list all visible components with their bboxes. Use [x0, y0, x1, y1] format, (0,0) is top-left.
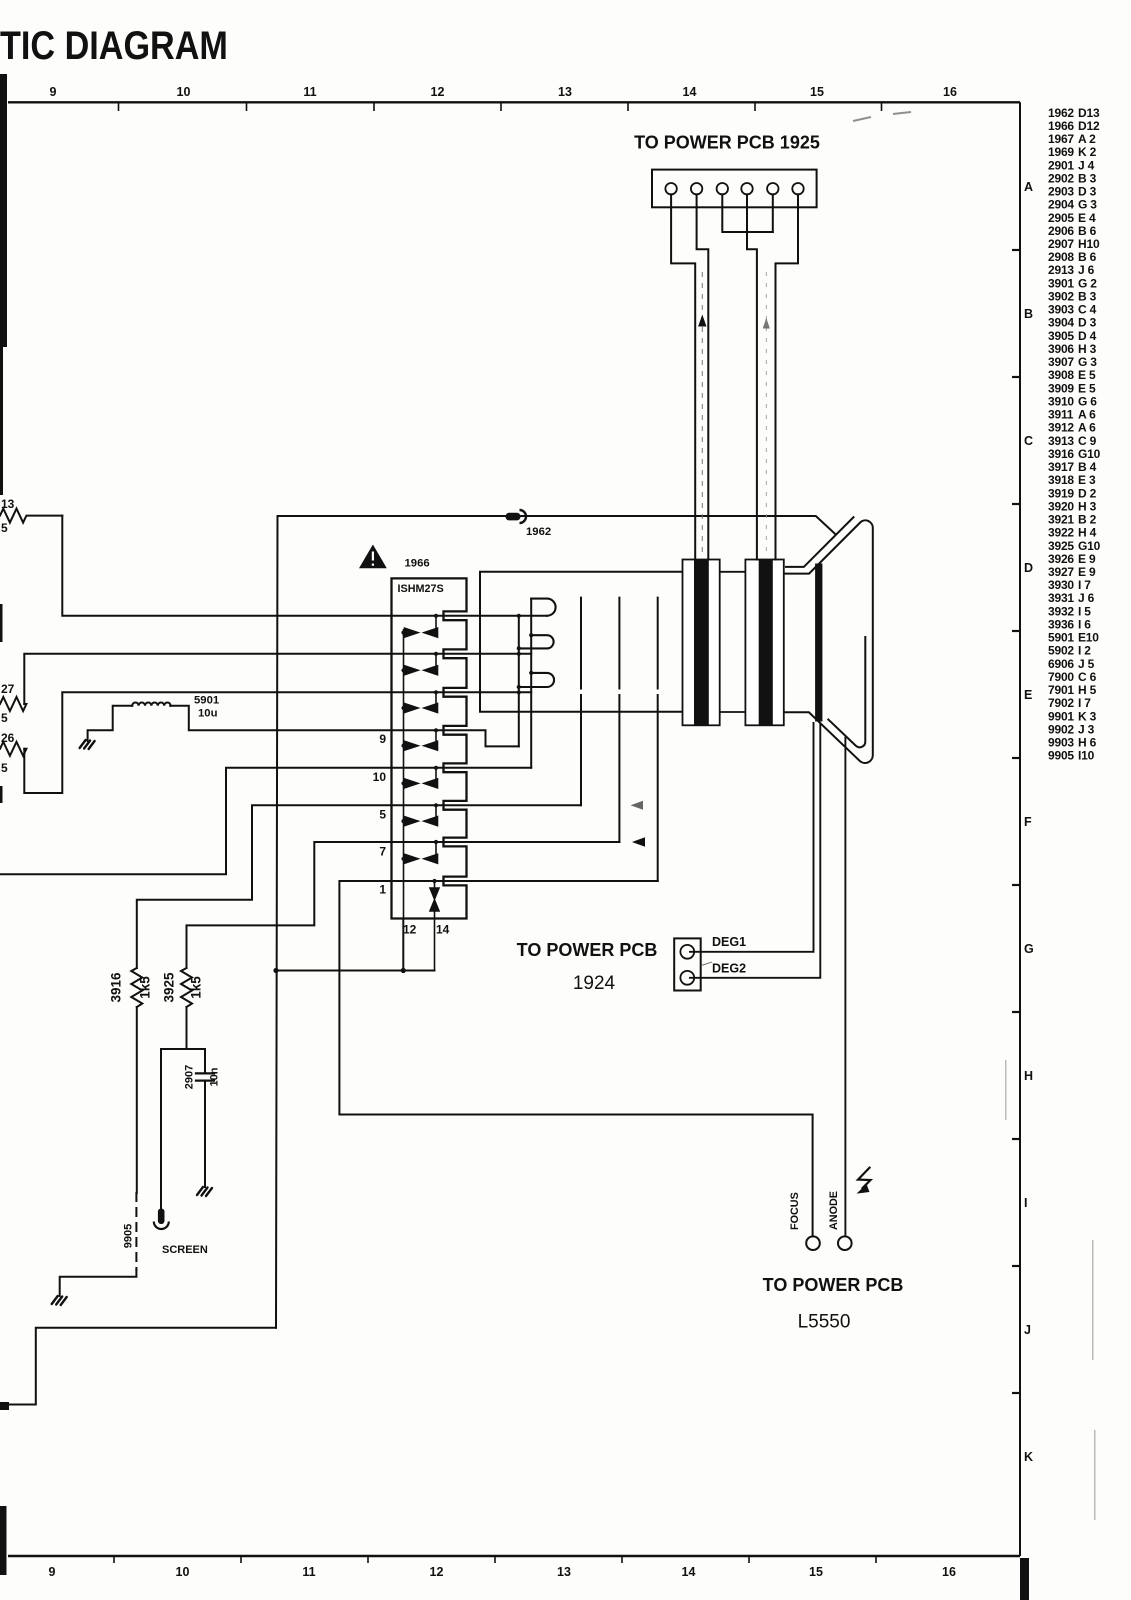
svg-text:3932: 3932	[1048, 604, 1074, 618]
resistor R26 (cropped, value 5)	[0, 742, 26, 756]
bottom ruler line	[8, 1555, 1020, 1558]
svg-text:G 3: G 3	[1078, 355, 1097, 369]
svg-text:9: 9	[379, 732, 386, 746]
svg-text:G10: G10	[1078, 447, 1101, 461]
svg-text:B 6: B 6	[1078, 250, 1097, 264]
svg-text:B: B	[1024, 307, 1033, 321]
svg-text:DEG2: DEG2	[712, 962, 746, 976]
svg-text:10: 10	[177, 85, 191, 99]
svg-text:G: G	[1024, 942, 1034, 956]
svg-text:H 4: H 4	[1078, 526, 1097, 540]
svg-text:3931: 3931	[1048, 591, 1074, 605]
svg-text:3902: 3902	[1048, 290, 1074, 304]
svg-text:D 3: D 3	[1078, 185, 1097, 199]
direction arrow on pin7 wire	[632, 837, 645, 846]
wire conn pin5	[772, 194, 774, 232]
svg-text:2905: 2905	[1048, 211, 1074, 225]
svg-text:3912: 3912	[1048, 421, 1074, 435]
svg-text:K: K	[1024, 1450, 1033, 1464]
svg-text:1969: 1969	[1048, 145, 1074, 159]
rotated component labels	[109, 972, 221, 1248]
screen contact pin 9905	[158, 1209, 165, 1225]
svg-text:3911: 3911	[1048, 408, 1074, 422]
CRT internal electrode bar	[815, 564, 822, 722]
svg-text:D 4: D 4	[1078, 329, 1097, 343]
tube pin riser for socket pin6	[580, 598, 582, 806]
ground at 9905 screen lead	[52, 1296, 67, 1305]
svg-text:FOCUS: FOCUS	[789, 1192, 801, 1230]
wire conn pin3	[722, 194, 773, 232]
svg-text:3913: 3913	[1048, 434, 1074, 448]
CRT socket 1966 ISHM27S outline with pin notches	[392, 578, 467, 918]
wire 5901 left to ground	[88, 706, 133, 741]
svg-text:H10: H10	[1078, 237, 1100, 251]
svg-text:A 2: A 2	[1078, 132, 1096, 146]
svg-text:3926: 3926	[1048, 552, 1074, 566]
ANODE terminal	[838, 1236, 852, 1250]
svg-text:E 4: E 4	[1078, 211, 1096, 225]
scan smudges	[853, 112, 911, 121]
svg-text:1962: 1962	[1048, 106, 1074, 120]
svg-text:3905: 3905	[1048, 329, 1074, 343]
direction arrow on pin6 wire	[631, 801, 644, 810]
svg-text:16: 16	[942, 1565, 956, 1579]
resistor R27 (cropped, value 5)	[0, 697, 26, 711]
svg-text:2908: 2908	[1048, 250, 1074, 264]
svg-text:2902: 2902	[1048, 171, 1074, 185]
svg-text:TO POWER PCB: TO POWER PCB	[763, 1275, 904, 1295]
svg-text:H 3: H 3	[1078, 499, 1097, 513]
resistor R13 (cropped, value 5)	[0, 509, 62, 523]
svg-text:H: H	[1024, 1069, 1033, 1083]
wire pin4 from 5901	[170, 706, 519, 747]
svg-text:14: 14	[436, 923, 450, 937]
CRT neck top inner line	[785, 517, 854, 567]
svg-text:D 3: D 3	[1078, 316, 1097, 330]
wire conn pin1	[671, 194, 695, 559]
svg-text:2906: 2906	[1048, 224, 1074, 238]
tube pin riser for socket pin8	[657, 598, 659, 881]
svg-text:5: 5	[1, 761, 8, 775]
svg-text:10u: 10u	[198, 708, 218, 720]
svg-text:A 6: A 6	[1078, 408, 1096, 422]
svg-text:I 7: I 7	[1078, 696, 1091, 710]
socket pin number labels	[373, 732, 387, 897]
wire pin7 to resistor 3925	[187, 842, 620, 968]
svg-text:G 3: G 3	[1078, 198, 1097, 212]
svg-text:E: E	[1024, 688, 1032, 702]
svg-text:2907: 2907	[184, 1065, 196, 1089]
CRT envelope top outline	[784, 520, 873, 763]
svg-text:9902: 9902	[1048, 722, 1074, 736]
yoke block 2	[745, 560, 783, 726]
svg-text:3927: 3927	[1048, 565, 1074, 579]
svg-text:3906: 3906	[1048, 342, 1074, 356]
bottom ruler numbers	[49, 1565, 956, 1579]
yoke block 1	[683, 560, 720, 726]
yoke inter-block links	[720, 572, 746, 712]
svg-text:3917: 3917	[1048, 460, 1074, 474]
svg-text:B 6: B 6	[1078, 224, 1097, 238]
svg-text:15: 15	[809, 1565, 823, 1579]
svg-text:3909: 3909	[1048, 381, 1074, 395]
svg-text:1966: 1966	[1048, 119, 1074, 133]
border bottom end blob	[1020, 1558, 1029, 1600]
svg-text:SCREEN: SCREEN	[162, 1244, 208, 1256]
svg-text:13: 13	[557, 1565, 571, 1579]
pin12 lead	[402, 919, 404, 971]
svg-text:3930: 3930	[1048, 578, 1074, 592]
svg-text:TO POWER PCB 1925: TO POWER PCB 1925	[634, 133, 820, 153]
svg-text:C 4: C 4	[1078, 303, 1097, 317]
anode wire	[844, 737, 846, 1236]
svg-text:7: 7	[379, 845, 386, 859]
ghost center line with up arrow (left pair)	[701, 272, 703, 554]
svg-text:3922: 3922	[1048, 526, 1074, 540]
right grid border line	[1019, 102, 1021, 1556]
heater rail junction dots	[517, 614, 534, 695]
svg-text:1924: 1924	[573, 973, 616, 994]
tube base box	[480, 572, 683, 712]
svg-text:9901: 9901	[1048, 709, 1074, 723]
svg-text:C 6: C 6	[1078, 670, 1097, 684]
svg-text:B 3: B 3	[1078, 171, 1097, 185]
wire conn pin6	[776, 194, 799, 559]
svg-text:11: 11	[303, 85, 316, 99]
svg-text:3901: 3901	[1048, 276, 1074, 290]
component index list	[1048, 106, 1101, 763]
svg-text:9: 9	[49, 1565, 56, 1579]
svg-text:10: 10	[373, 770, 387, 784]
svg-text:3904: 3904	[1048, 316, 1074, 330]
svg-text:E10: E10	[1078, 631, 1099, 645]
svg-text:E 5: E 5	[1078, 368, 1096, 382]
svg-text:D: D	[1024, 561, 1033, 575]
svg-text:7901: 7901	[1048, 683, 1074, 697]
warning triangle	[359, 545, 387, 569]
svg-text:15: 15	[810, 85, 824, 99]
wire pin3 from R26	[24, 692, 531, 793]
pin14 spark gap with arrows	[430, 879, 439, 971]
svg-text:ANODE: ANODE	[828, 1191, 840, 1230]
bottom-left return wire	[7, 1328, 276, 1405]
tube pin riser for socket pin7	[618, 598, 620, 842]
ghost center line with up arrow (right pair)	[765, 272, 767, 554]
CRT screen inner line	[828, 636, 866, 747]
svg-text:I 2: I 2	[1078, 644, 1091, 658]
svg-text:B 2: B 2	[1078, 513, 1097, 527]
heater rail B	[530, 599, 532, 768]
svg-text:DEG1: DEG1	[712, 935, 746, 949]
svg-text:I: I	[1024, 1196, 1027, 1210]
high voltage lightning arrow	[858, 1167, 871, 1189]
resistor 3925 1k5	[181, 968, 192, 1007]
svg-text:I 5: I 5	[1078, 604, 1091, 618]
long vertical bus x=276.5	[276, 516, 278, 1328]
yoke block 1 core bar	[694, 560, 709, 726]
svg-text:I 7: I 7	[1078, 578, 1091, 592]
heater loop 1	[531, 599, 555, 616]
svg-text:A: A	[1024, 180, 1033, 194]
svg-text:3907: 3907	[1048, 355, 1074, 369]
svg-text:27: 27	[1, 682, 15, 696]
wire pin8 / focus route	[339, 881, 812, 1236]
svg-text:I10: I10	[1078, 749, 1095, 763]
svg-text:D12: D12	[1078, 119, 1100, 133]
svg-text:J 5: J 5	[1078, 657, 1095, 671]
svg-text:6906: 6906	[1048, 657, 1074, 671]
deg2 riser	[689, 724, 820, 978]
svg-text:14: 14	[682, 1565, 696, 1579]
wire 2907 to ground	[204, 1081, 206, 1187]
svg-text:TIC DIAGRAM: TIC DIAGRAM	[0, 22, 228, 67]
svg-text:G 6: G 6	[1078, 394, 1097, 408]
svg-text:16: 16	[943, 85, 957, 99]
svg-text:B 3: B 3	[1078, 290, 1097, 304]
svg-text:3910: 3910	[1048, 394, 1074, 408]
svg-text:L5550: L5550	[798, 1312, 851, 1333]
svg-text:5901: 5901	[1048, 631, 1074, 645]
ferrite bead 1962	[506, 513, 521, 521]
svg-text:F: F	[1024, 815, 1032, 829]
svg-text:1967: 1967	[1048, 132, 1074, 146]
svg-text:26: 26	[1, 731, 15, 745]
svg-text:2904: 2904	[1048, 198, 1074, 212]
svg-text:9: 9	[50, 85, 57, 99]
wire conn pin2	[697, 194, 709, 559]
svg-text:2907: 2907	[1048, 237, 1074, 251]
svg-text:5: 5	[379, 808, 386, 822]
svg-text:13: 13	[558, 85, 572, 99]
wire pin2 from R27	[24, 654, 531, 704]
capacitor 2907 10n	[196, 1073, 214, 1080]
svg-text:J 4: J 4	[1078, 158, 1095, 172]
svg-text:G10: G10	[1078, 539, 1101, 553]
svg-text:1k5: 1k5	[138, 976, 153, 999]
svg-text:3936: 3936	[1048, 618, 1074, 632]
svg-text:14: 14	[683, 85, 697, 99]
right border ticks	[1012, 250, 1020, 1393]
top ruler numbers	[50, 85, 957, 99]
svg-text:3925: 3925	[1048, 539, 1074, 553]
svg-text:3916: 3916	[1048, 447, 1074, 461]
inductor 5901 10u	[132, 703, 170, 706]
svg-text:E 5: E 5	[1078, 381, 1096, 395]
svg-text:E 3: E 3	[1078, 473, 1096, 487]
svg-text:9905: 9905	[123, 1224, 135, 1248]
svg-text:3916: 3916	[109, 972, 124, 1003]
svg-text:I 6: I 6	[1078, 618, 1091, 632]
svg-text:5901: 5901	[194, 695, 219, 707]
svg-text:D13: D13	[1078, 106, 1100, 120]
svg-text:B 4: B 4	[1078, 460, 1097, 474]
svg-text:11: 11	[302, 1565, 315, 1579]
svg-text:1: 1	[379, 883, 386, 897]
svg-text:3903: 3903	[1048, 303, 1074, 317]
svg-text:10n: 10n	[209, 1067, 221, 1086]
svg-text:9903: 9903	[1048, 736, 1074, 750]
wire conn pin4	[747, 194, 757, 559]
left page-edge crop bars	[0, 74, 7, 347]
wire 3925 node	[161, 1007, 205, 1209]
svg-text:K 2: K 2	[1078, 145, 1097, 159]
svg-text:3921: 3921	[1048, 513, 1074, 527]
svg-text:ISHM27S: ISHM27S	[398, 583, 444, 595]
svg-text:3920: 3920	[1048, 499, 1074, 513]
heater loop 2	[519, 635, 554, 648]
svg-text:H 6: H 6	[1078, 736, 1097, 750]
top ruler ticks	[119, 102, 882, 111]
bottom ruler ticks	[114, 1556, 876, 1563]
svg-text:7902: 7902	[1048, 696, 1074, 710]
svg-text:H 5: H 5	[1078, 683, 1097, 697]
svg-text:E 9: E 9	[1078, 565, 1096, 579]
yoke block 2 core bar	[759, 560, 773, 726]
svg-text:2913: 2913	[1048, 263, 1074, 277]
svg-text:A 6: A 6	[1078, 421, 1096, 435]
svg-text:13: 13	[1, 497, 15, 511]
svg-text:J 6: J 6	[1078, 263, 1095, 277]
svg-text:7900: 7900	[1048, 670, 1074, 684]
svg-text:E 9: E 9	[1078, 552, 1096, 566]
heater loop 3	[519, 673, 554, 687]
svg-text:G 2: G 2	[1078, 276, 1097, 290]
wire pin6 to resistor 3916	[137, 805, 581, 968]
deg1 riser	[689, 722, 814, 952]
svg-text:1962: 1962	[526, 526, 551, 538]
svg-text:C: C	[1024, 434, 1033, 448]
svg-text:C 9: C 9	[1078, 434, 1097, 448]
cropped left labels 13/5 27/5 26/5	[1, 497, 15, 775]
svg-text:1k5: 1k5	[189, 976, 204, 999]
heater rail A	[518, 616, 520, 747]
svg-text:2901: 2901	[1048, 158, 1074, 172]
deg2 leader line	[701, 962, 712, 966]
svg-text:5: 5	[1, 711, 8, 725]
svg-text:D 2: D 2	[1078, 486, 1097, 500]
spark gaps inside socket	[401, 614, 438, 919]
connector 1925 pins	[665, 183, 803, 194]
svg-text:5902: 5902	[1048, 644, 1074, 658]
wire pin1 from R13	[62, 516, 547, 616]
svg-text:12: 12	[431, 85, 445, 99]
svg-text:3919: 3919	[1048, 486, 1074, 500]
svg-text:1966: 1966	[405, 558, 430, 570]
svg-text:9905: 9905	[1048, 749, 1074, 763]
svg-text:2903: 2903	[1048, 185, 1074, 199]
top ruler line	[8, 101, 1020, 103]
svg-text:3908: 3908	[1048, 368, 1074, 382]
connector 1924 pins	[680, 945, 694, 959]
svg-text:10: 10	[176, 1565, 190, 1579]
connector 1924 body	[674, 938, 701, 990]
svg-text:J 3: J 3	[1078, 722, 1095, 736]
svg-text:5: 5	[1, 521, 8, 535]
svg-text:H 3: H 3	[1078, 342, 1097, 356]
svg-text:3918: 3918	[1048, 473, 1074, 487]
connector 1925 body	[652, 170, 817, 208]
svg-text:J 6: J 6	[1078, 591, 1095, 605]
wire 3916 to screen lead (part dashed 9905)	[136, 1007, 138, 1193]
svg-text:3925: 3925	[162, 972, 177, 1003]
wire pin5 to page left	[0, 768, 531, 874]
wire 1962 line into CRT	[278, 516, 835, 534]
svg-text:12: 12	[430, 1565, 444, 1579]
resistor 3916 1k5	[131, 968, 142, 1007]
pin12 bus wire	[276, 970, 435, 972]
ground at 5901	[80, 740, 95, 749]
svg-text:J: J	[1024, 1323, 1031, 1337]
ground at 2907	[197, 1187, 212, 1196]
FOCUS terminal	[806, 1236, 820, 1250]
grid row letters A-K	[1024, 180, 1034, 1464]
svg-text:TO POWER PCB: TO POWER PCB	[517, 940, 658, 960]
svg-text:K 3: K 3	[1078, 709, 1097, 723]
svg-text:12: 12	[403, 923, 417, 937]
